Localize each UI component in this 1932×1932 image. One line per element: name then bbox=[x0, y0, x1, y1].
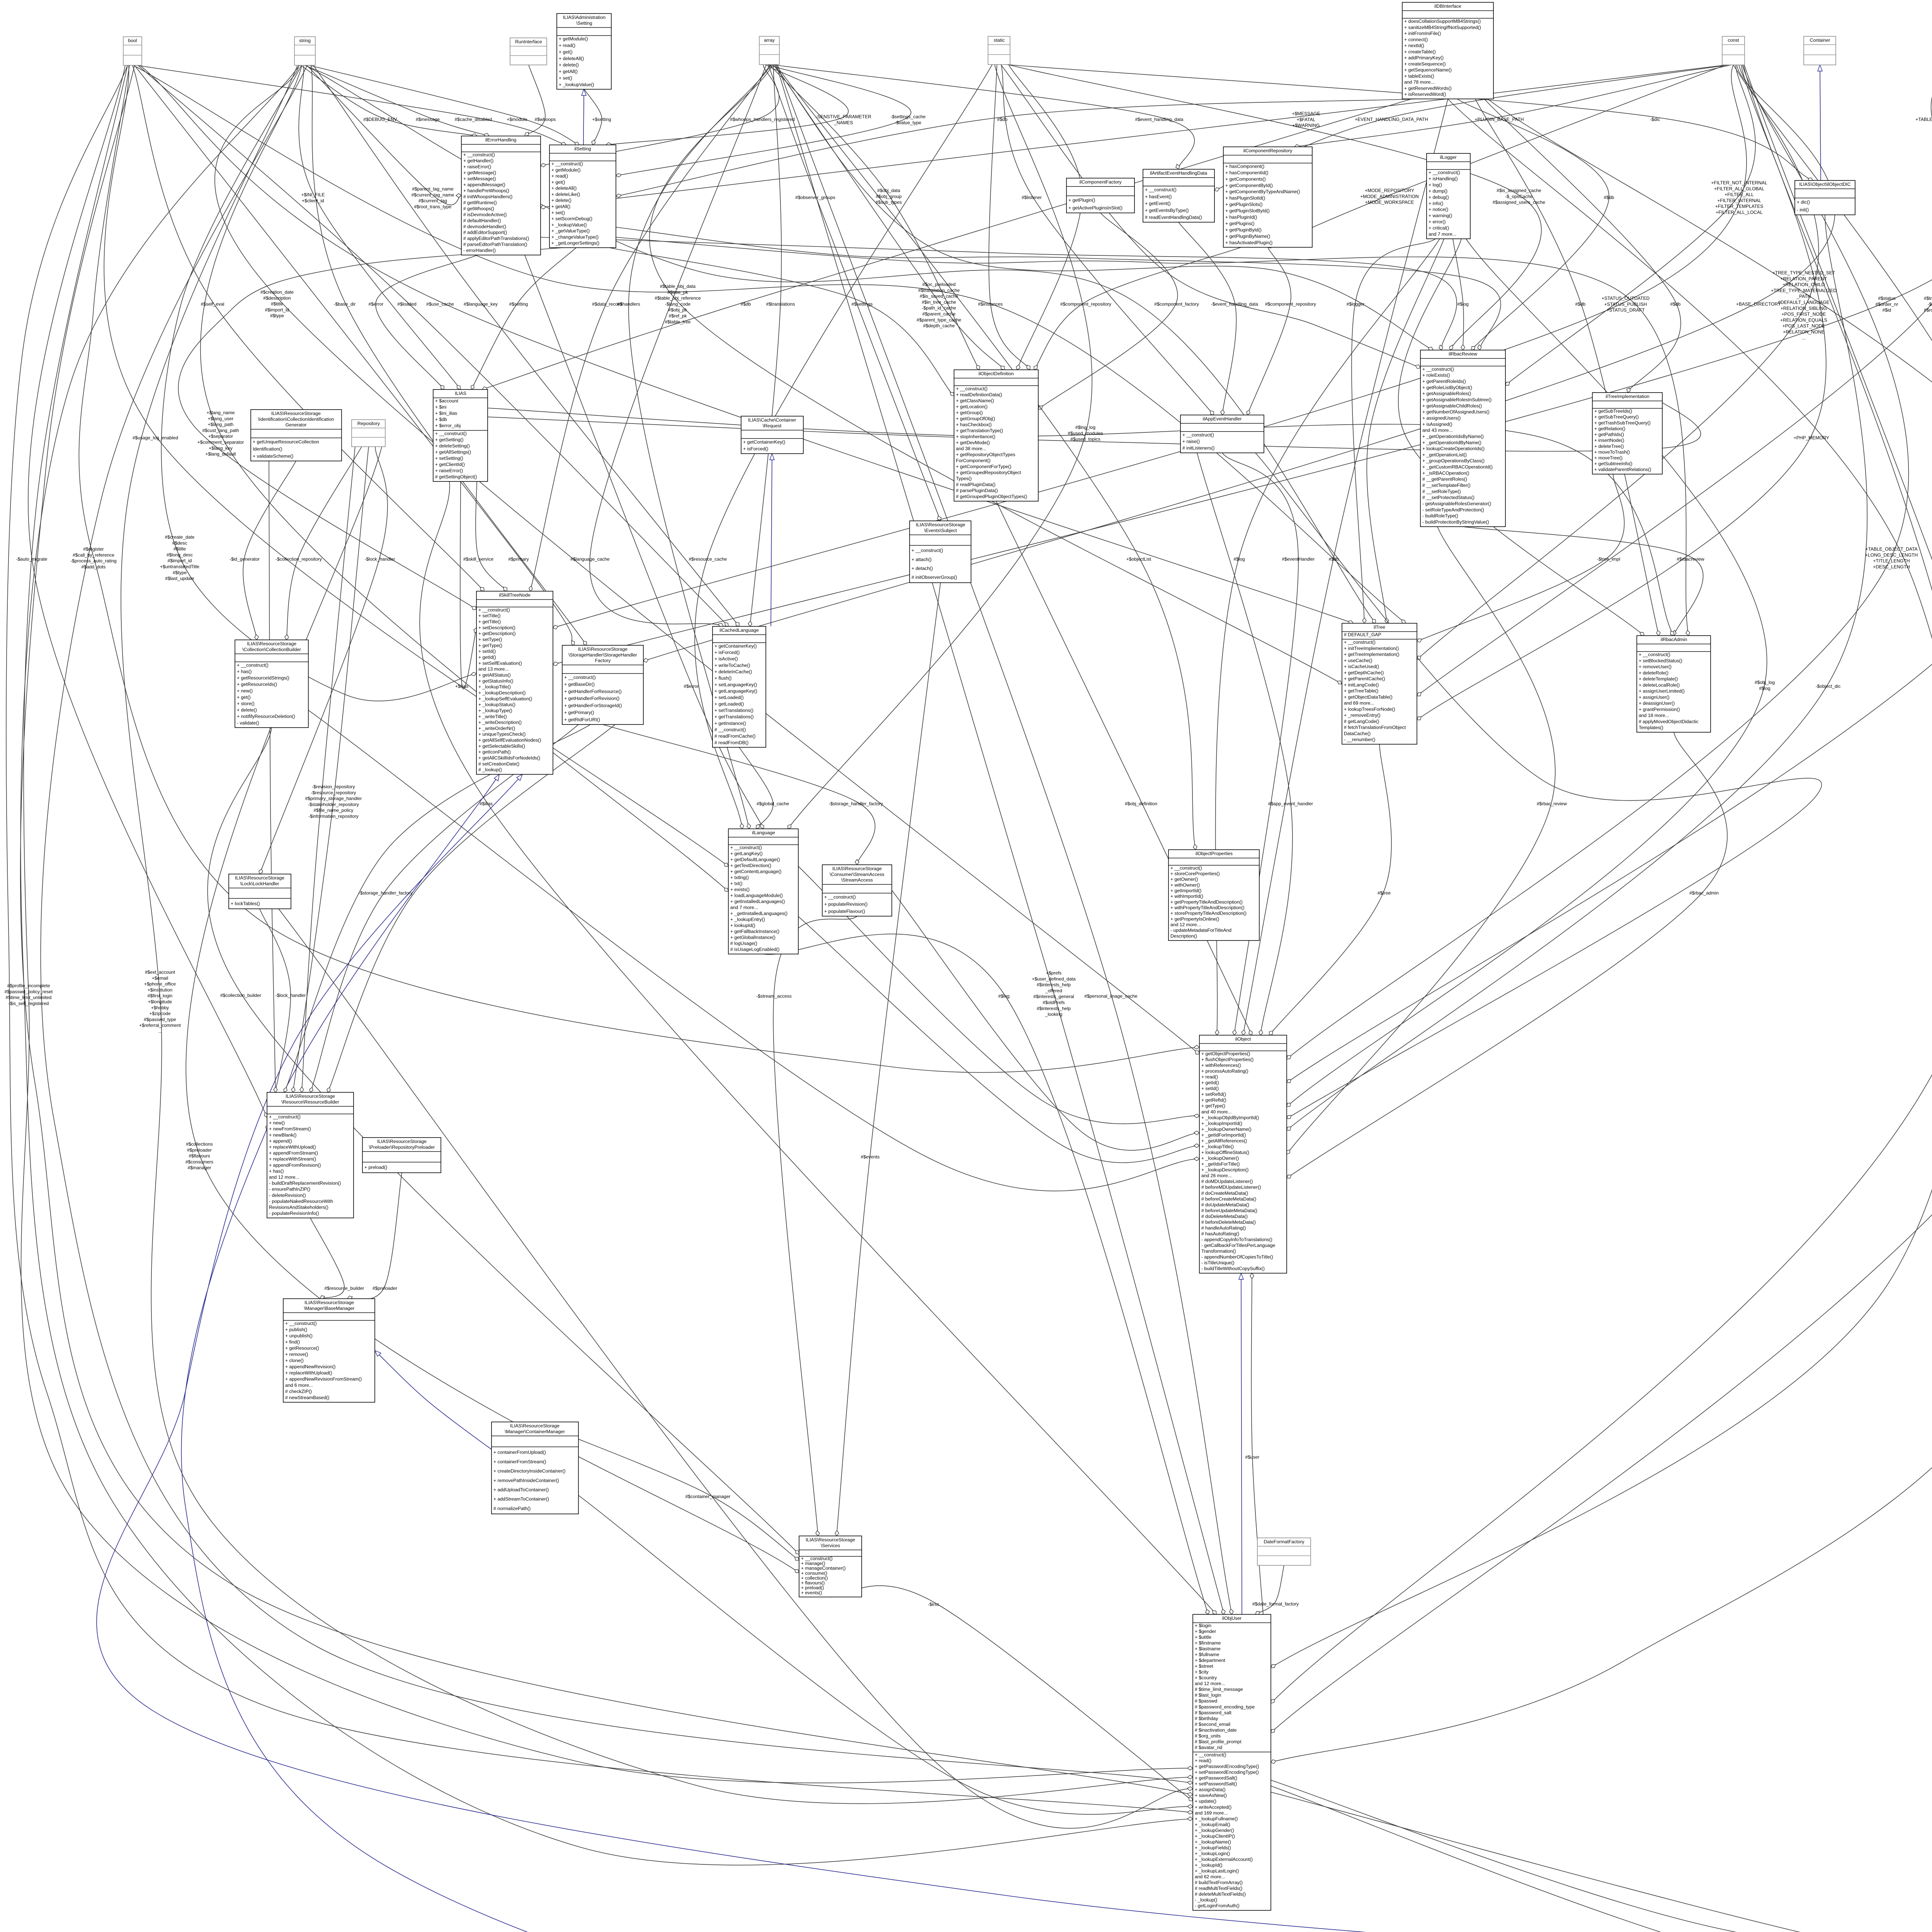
svg-text:-$gap: -$gap bbox=[1928, 301, 1932, 307]
svg-text:+ moveToTrash(): + moveToTrash() bbox=[1594, 449, 1630, 455]
svg-text:+ isReservedWord(): + isReservedWord() bbox=[1404, 92, 1446, 97]
svg-text:# deleteMultiTextFields(): # deleteMultiTextFields() bbox=[1195, 1891, 1246, 1897]
svg-text:#$parent_tag_name: #$parent_tag_name bbox=[412, 186, 454, 192]
svg-text:+ readDefinitionData(): + readDefinitionData() bbox=[956, 392, 1002, 397]
svg-text:+ _lookupImportId(): + _lookupImportId() bbox=[1201, 1121, 1242, 1126]
svg-text:+ $gender: + $gender bbox=[1195, 1629, 1216, 1634]
svg-text:+$module: +$module bbox=[507, 117, 527, 122]
svg-text:+ isActive(): + isActive() bbox=[714, 656, 738, 662]
svg-text:+ read(): + read() bbox=[559, 43, 575, 48]
svg-text:# $passwd: # $passwd bbox=[1195, 1698, 1217, 1704]
svg-text:+ raiseError(): + raiseError() bbox=[463, 164, 491, 170]
svg-text:+$setting: +$setting bbox=[592, 117, 611, 122]
svg-text:+ read(): + read() bbox=[1201, 1074, 1218, 1080]
svg-text:+$FATAL: +$FATAL bbox=[1297, 117, 1316, 122]
svg-text:+ getPlugin(): + getPlugin() bbox=[1068, 197, 1095, 203]
svg-text:+ getAssignableChildRoles(): + getAssignableChildRoles() bbox=[1422, 403, 1482, 408]
svg-text:#$in_tree_cache: #$in_tree_cache bbox=[922, 299, 956, 305]
svg-text:ILIAS\ResourceStorage: ILIAS\ResourceStorage bbox=[304, 1300, 354, 1305]
edge bbox=[1216, 239, 1440, 1035]
svg-text:+ setRefId(): + setRefId() bbox=[1201, 1092, 1226, 1097]
svg-text:+ containerFromUpload(): + containerFromUpload() bbox=[493, 1450, 546, 1455]
svg-text:+ appendFromStream(): + appendFromStream() bbox=[269, 1150, 318, 1156]
edge bbox=[609, 248, 954, 396]
svg-text:+$email: +$email bbox=[152, 975, 168, 981]
svg-text:+ replaceWithUpload(): + replaceWithUpload() bbox=[285, 1370, 332, 1376]
svg-text:# doCreateMetaData(): # doCreateMetaData() bbox=[1201, 1190, 1248, 1196]
svg-text:# __setTemplateFilter(): # __setTemplateFilter() bbox=[1422, 483, 1471, 488]
svg-text:#$rbac_admin: #$rbac_admin bbox=[1689, 890, 1719, 896]
svg-text:# $avatar_rid: # $avatar_rid bbox=[1195, 1745, 1222, 1750]
svg-text:+ getComponentByTypeAndName(): + getComponentByTypeAndName() bbox=[1225, 189, 1300, 194]
svg-text:#$log: #$log bbox=[1233, 556, 1245, 562]
svg-text:+ assignedUsers(): + assignedUsers() bbox=[1422, 415, 1461, 421]
svg-text:Repository: Repository bbox=[357, 421, 380, 426]
svg-text:+$untranslatedTitle: +$untranslatedTitle bbox=[160, 564, 199, 570]
edge bbox=[134, 65, 574, 645]
svg-text:#$collections: #$collections bbox=[186, 1141, 213, 1147]
edge bbox=[541, 65, 779, 166]
svg-text:+ hasActivatedPlugin(): + hasActivatedPlugin() bbox=[1225, 240, 1272, 245]
edge bbox=[140, 65, 1353, 623]
svg-text:+ initTreeImplementation(): + initTreeImplementation() bbox=[1344, 646, 1399, 651]
svg-text:+ error(): + error() bbox=[1429, 219, 1446, 224]
svg-text:+ getTranslationType(): + getTranslationType() bbox=[956, 428, 1003, 433]
svg-text:+ initFromIniFile(): + initFromIniFile() bbox=[1404, 31, 1441, 36]
edge bbox=[420, 481, 1216, 1614]
edge bbox=[460, 481, 476, 689]
svg-text:+ storeCoreProperties(): + storeCoreProperties() bbox=[1170, 871, 1220, 876]
svg-text:+ __construct(): + __construct() bbox=[1429, 170, 1460, 175]
edge bbox=[313, 65, 739, 626]
svg-text:-$storage_handler_factory: -$storage_handler_factory bbox=[359, 890, 413, 896]
svg-text:+ getPasswordEncodingType(): + getPasswordEncodingType() bbox=[1195, 1764, 1259, 1769]
svg-text:- buildTitleWithoutCopySuffix(: - buildTitleWithoutCopySuffix() bbox=[1201, 1266, 1265, 1271]
svg-text:+FILTER_ALL_LOCAL: +FILTER_ALL_LOCAL bbox=[1716, 210, 1763, 215]
svg-text:+ $fullname: + $fullname bbox=[1195, 1652, 1219, 1657]
edge bbox=[606, 65, 848, 145]
svg-text:+FILTER_TEMPLATES: +FILTER_TEMPLATES bbox=[1715, 204, 1764, 209]
class AdminSetting bbox=[557, 14, 611, 89]
svg-text:#$observer_groups: #$observer_groups bbox=[795, 195, 835, 200]
svg-text:\Events\Subject: \Events\Subject bbox=[924, 528, 957, 533]
svg-text:+ insertNode(): + insertNode() bbox=[1594, 438, 1624, 443]
svg-text:+ publish(): + publish() bbox=[285, 1327, 307, 1332]
svg-text:-$event_handling_data: -$event_handling_data bbox=[1211, 301, 1258, 307]
svg-text:#$translation_cache: #$translation_cache bbox=[918, 287, 960, 293]
svg-text:#$profile_incomplete: #$profile_incomplete bbox=[7, 983, 50, 988]
edge bbox=[133, 65, 484, 591]
svg-text:+ _lookupType(): + _lookupType() bbox=[478, 708, 512, 713]
svg-text:+ getSubtreeInfo(): + getSubtreeInfo() bbox=[1594, 461, 1633, 466]
svg-text:#$title: #$title bbox=[173, 546, 186, 552]
svg-text:# getWhoops(): # getWhoops() bbox=[463, 206, 494, 211]
svg-text:+ processAutoRating(): + processAutoRating() bbox=[1201, 1068, 1248, 1074]
svg-text:-$lock_handler: -$lock_handler bbox=[276, 993, 306, 998]
svg-text:+RELATION_SIBLING: +RELATION_SIBLING bbox=[1781, 306, 1827, 311]
svg-text:+ getAll(): + getAll() bbox=[551, 204, 570, 209]
svg-text:+ read(): + read() bbox=[551, 173, 568, 179]
svg-text:# readPluginData(): # readPluginData() bbox=[956, 482, 995, 487]
class RunInterface bbox=[510, 38, 547, 65]
class ilCachedLanguage bbox=[713, 626, 766, 747]
svg-text:+ _lookupName(): + _lookupName() bbox=[1195, 1839, 1231, 1845]
svg-text:+ _changeValueType(): + _changeValueType() bbox=[551, 234, 599, 240]
svg-text:#$obj_definition: #$obj_definition bbox=[1125, 801, 1157, 806]
edge bbox=[553, 65, 1932, 665]
svg-text:ilSetting: ilSetting bbox=[574, 146, 591, 151]
svg-text:_offered: _offered bbox=[1045, 988, 1062, 993]
svg-text:+ getLoaded(): + getLoaded() bbox=[714, 701, 744, 707]
svg-text:+ $ini: + $ini bbox=[435, 405, 446, 410]
svg-text:# getGroupedPluginObjectTypes(: # getGroupedPluginObjectTypes() bbox=[956, 494, 1027, 499]
svg-text:-$value_type: -$value_type bbox=[895, 120, 922, 125]
edge bbox=[629, 65, 771, 829]
svg-text:ForComponent(): ForComponent() bbox=[956, 458, 990, 463]
svg-text:+ delete(): + delete() bbox=[559, 62, 579, 68]
edge bbox=[269, 461, 276, 1092]
svg-text:+ getPluginById(): + getPluginById() bbox=[1225, 227, 1262, 233]
svg-text:+ getPluginSlotById(): + getPluginSlotById() bbox=[1225, 208, 1270, 214]
svg-text:+ getPluginByName(): + getPluginByName() bbox=[1225, 233, 1270, 239]
svg-text:+ removePathInsideContainer(): + removePathInsideContainer() bbox=[493, 1478, 559, 1483]
svg-text:+ roleExists(): + roleExists() bbox=[1422, 372, 1450, 378]
edge bbox=[215, 65, 1199, 1054]
svg-text:+ exists(): + exists() bbox=[730, 887, 750, 892]
edge bbox=[1417, 474, 1624, 641]
svg-text:#$long_desc: #$long_desc bbox=[167, 552, 193, 558]
svg-text:+ __construct(): + __construct() bbox=[1344, 639, 1376, 645]
edge bbox=[1251, 1273, 1263, 1614]
svg-text:#$used_modules: #$used_modules bbox=[1068, 430, 1103, 436]
svg-text:+$user_defined_data: +$user_defined_data bbox=[1032, 976, 1075, 981]
svg-text:-$settings_cache: -$settings_cache bbox=[891, 114, 926, 119]
svg-text:+ _lookupOwnerName(): + _lookupOwnerName() bbox=[1201, 1126, 1252, 1132]
svg-text:+ $lastname: + $lastname bbox=[1195, 1646, 1221, 1651]
edge bbox=[161, 65, 476, 701]
svg-text:+ saveAsNew(): + saveAsNew() bbox=[1195, 1793, 1227, 1798]
svg-text:-$storage_handler_factory: -$storage_handler_factory bbox=[829, 801, 883, 806]
svg-text:+ getContainerKey(): + getContainerKey() bbox=[743, 439, 785, 445]
edge bbox=[376, 255, 477, 389]
svg-text:-$id_generator: -$id_generator bbox=[230, 556, 260, 562]
svg-text:Types(): Types() bbox=[956, 476, 972, 481]
svg-text:+ __construct(): + __construct() bbox=[435, 431, 467, 436]
class DateFormatFactory bbox=[1257, 1538, 1311, 1565]
edge bbox=[201, 65, 728, 891]
svg-text:+ _lookupSelfEvaluation(): + _lookupSelfEvaluation() bbox=[478, 696, 532, 701]
svg-text:+ get(): + get() bbox=[551, 180, 565, 185]
svg-text:and 40 more...: and 40 more... bbox=[1201, 1109, 1232, 1114]
edge bbox=[186, 447, 799, 1573]
svg-text:+ validateParentRelations(): + validateParentRelations() bbox=[1594, 467, 1651, 472]
svg-text:+ deleteLike(): + deleteLike() bbox=[551, 192, 580, 197]
edge bbox=[471, 248, 576, 389]
svg-text:+ deleteTemplate(): + deleteTemplate() bbox=[1639, 676, 1678, 682]
edge bbox=[541, 65, 1727, 207]
svg-text:\Identification\CollectionIden: \Identification\CollectionIdentification bbox=[258, 417, 334, 422]
svg-text:+ _lookupLogin(): + _lookupLogin() bbox=[1195, 1851, 1230, 1856]
edge bbox=[104, 65, 728, 866]
svg-text:+ withImportId(): + withImportId() bbox=[1170, 894, 1203, 899]
svg-text:+ getBaseDir(): + getBaseDir() bbox=[564, 682, 595, 687]
edge bbox=[286, 447, 362, 640]
svg-text:#$error: #$error bbox=[369, 301, 384, 307]
svg-text:- appendCopyInfoToTranslations: - appendCopyInfoToTranslations() bbox=[1201, 1237, 1272, 1242]
svg-text:+ _lookupStatus(): + _lookupStatus() bbox=[478, 702, 515, 707]
svg-text:ILIAS\ResourceStorage: ILIAS\ResourceStorage bbox=[271, 411, 321, 416]
edge bbox=[590, 65, 766, 626]
svg-text:#$date_format_factory: #$date_format_factory bbox=[1252, 1601, 1299, 1607]
svg-text:# beforeUpdateMetaData(): # beforeUpdateMetaData() bbox=[1201, 1208, 1257, 1213]
svg-text:# fetchTranslationFromObject: # fetchTranslationFromObject bbox=[1344, 725, 1406, 730]
svg-text:- buildDraftReplacementRevisio: - buildDraftReplacementRevision() bbox=[269, 1180, 341, 1186]
edge bbox=[616, 237, 1689, 636]
edge bbox=[1241, 1273, 1242, 1614]
svg-text:#$type: #$type bbox=[173, 570, 187, 575]
svg-text:\Setting: \Setting bbox=[576, 20, 592, 26]
edge bbox=[798, 917, 1199, 1163]
edge bbox=[293, 447, 369, 1092]
svg-text:+FILTER_INTERNAL: +FILTER_INTERNAL bbox=[1717, 198, 1761, 203]
svg-text:#$parent_cache: #$parent_cache bbox=[922, 311, 956, 317]
svg-text:+ getMessage(): + getMessage() bbox=[463, 170, 496, 175]
svg-text:+ getIconPath(): + getIconPath() bbox=[478, 749, 511, 755]
edge bbox=[328, 724, 615, 1092]
svg-text:- getAssignableRolesGenerator(: - getAssignableRolesGenerator() bbox=[1422, 501, 1491, 507]
svg-text:+ has(): + has() bbox=[237, 669, 252, 674]
svg-text:#$parent_type_cache: #$parent_type_cache bbox=[917, 317, 961, 323]
edge bbox=[1271, 99, 1932, 1668]
edge bbox=[1243, 99, 1448, 1035]
svg-text:+ assignUserLimited(): + assignUserLimited() bbox=[1639, 689, 1685, 694]
svg-text:+ setId(): + setId() bbox=[478, 649, 496, 654]
edge bbox=[525, 65, 545, 136]
svg-text:#$translations: #$translations bbox=[766, 301, 795, 307]
svg-text:# $last_login: # $last_login bbox=[1195, 1692, 1221, 1698]
edge bbox=[375, 1350, 492, 1449]
svg-text:+ getSubTreeQuery(): + getSubTreeQuery() bbox=[1594, 414, 1639, 420]
svg-text:# __setProtectedStatus(): # __setProtectedStatus() bbox=[1422, 495, 1475, 500]
edge bbox=[776, 65, 1196, 850]
svg-text:#$whoops_handlers_registered: #$whoops_handlers_registered bbox=[730, 117, 794, 122]
svg-text:+ nextId(): + nextId() bbox=[1404, 43, 1424, 48]
svg-text:-$tree_impl: -$tree_impl bbox=[1597, 556, 1620, 562]
edge bbox=[311, 65, 587, 645]
class RepositoryPreloader bbox=[362, 1138, 441, 1173]
svg-text:+ $error_obj: + $error_obj bbox=[435, 423, 461, 429]
svg-text:- getCallbackForTitlesPerLangu: - getCallbackForTitlesPerLanguage bbox=[1201, 1243, 1275, 1248]
svg-text:#$log: #$log bbox=[1457, 301, 1468, 307]
svg-text:+ getContainerKey(): + getContainerKey() bbox=[714, 643, 757, 649]
svg-text:+ getId(): + getId() bbox=[478, 655, 496, 660]
svg-text:+ hasComponentId(): + hasComponentId() bbox=[1225, 170, 1268, 175]
svg-text:+ __construct(): + __construct() bbox=[564, 675, 596, 680]
svg-text:+ getResourceIds(): + getResourceIds() bbox=[237, 682, 277, 687]
svg-text:\Preloader\RepositoryPreloader: \Preloader\RepositoryPreloader bbox=[369, 1145, 435, 1150]
svg-text:+$lang_default: +$lang_default bbox=[205, 451, 236, 457]
svg-text:#$is_saved_cache: #$is_saved_cache bbox=[920, 294, 958, 299]
svg-text:+$longitude: +$longitude bbox=[148, 999, 172, 1005]
svg-text:- validate(): - validate() bbox=[237, 720, 259, 726]
edge bbox=[1294, 65, 1731, 147]
svg-text:+ getTrashSubTreeQuery(): + getTrashSubTreeQuery() bbox=[1594, 420, 1651, 425]
svg-text:and 13 more...: and 13 more... bbox=[478, 667, 509, 672]
svg-text:-$auto_migrate: -$auto_migrate bbox=[16, 556, 48, 562]
svg-text:+ txt(): + txt() bbox=[730, 881, 743, 886]
svg-text:# readMultiTextFields(): # readMultiTextFields() bbox=[1195, 1886, 1242, 1891]
svg-text:ILIAS\ResourceStorage: ILIAS\ResourceStorage bbox=[377, 1139, 427, 1144]
svg-text:+ remove(): + remove() bbox=[285, 1352, 308, 1357]
svg-text:+ _lookupLastLogin(): + _lookupLastLogin() bbox=[1195, 1868, 1239, 1874]
edge bbox=[616, 227, 1501, 350]
svg-text:+ getFallbackInstance(): + getFallbackInstance() bbox=[730, 929, 779, 934]
svg-text:+ setDescription(): + setDescription() bbox=[478, 625, 515, 630]
svg-text:ilObjectDefinition: ilObjectDefinition bbox=[978, 371, 1014, 376]
svg-text:+ initLangCode(): + initLangCode() bbox=[1344, 682, 1379, 687]
class ContainerManager bbox=[492, 1422, 578, 1514]
edge bbox=[1287, 239, 1767, 1107]
svg-text:- updateMetadataForTitleAnd: - updateMetadataForTitleAnd bbox=[1170, 928, 1231, 933]
class array bbox=[759, 36, 779, 65]
svg-text:+MODE_REPOSITORY: +MODE_REPOSITORY bbox=[1365, 188, 1414, 193]
svg-text:+ handlePreWhoops(): + handlePreWhoops() bbox=[463, 188, 509, 194]
class string bbox=[294, 37, 315, 65]
svg-text:#$id: #$id bbox=[1883, 308, 1891, 313]
class CollIdGen bbox=[251, 410, 342, 461]
svg-text:+ new(): + new() bbox=[269, 1120, 285, 1126]
svg-text:+ getEventsByType(): + getEventsByType() bbox=[1145, 208, 1189, 213]
svg-text:#$eventHandler: #$eventHandler bbox=[1282, 556, 1315, 562]
class ilObjectDefinition bbox=[954, 370, 1038, 501]
svg-text:Identification(): Identification() bbox=[253, 446, 282, 452]
svg-text:#$passwd_policy_reset: #$passwd_policy_reset bbox=[5, 989, 53, 994]
edge bbox=[1475, 99, 1659, 636]
svg-text:ilObject: ilObject bbox=[1235, 1036, 1251, 1042]
svg-text:- ensurePathInZIP(): - ensurePathInZIP() bbox=[269, 1187, 310, 1192]
edge bbox=[1398, 239, 1644, 636]
svg-text:and 7 more...: and 7 more... bbox=[1429, 231, 1456, 237]
svg-text:+ _lookupId(): + _lookupId() bbox=[1195, 1862, 1222, 1868]
svg-text:RunInterface: RunInterface bbox=[515, 39, 542, 44]
svg-text:+ append(): + append() bbox=[269, 1138, 292, 1144]
svg-text:Description(): Description() bbox=[1170, 933, 1197, 939]
svg-text:+ grantPermission(): + grantPermission() bbox=[1639, 707, 1680, 712]
svg-text:+ log(): + log() bbox=[1429, 182, 1442, 187]
svg-text:ILIAS\ResourceStorage: ILIAS\ResourceStorage bbox=[578, 646, 628, 652]
svg-text:+ getDevMode(): + getDevMode() bbox=[956, 440, 990, 445]
edge bbox=[892, 890, 1199, 1150]
edge bbox=[1931, 65, 1932, 265]
edge bbox=[1038, 213, 1178, 409]
svg-text:\StorageHandler\StorageHandler: \StorageHandler\StorageHandler bbox=[568, 652, 637, 658]
edge bbox=[750, 65, 781, 626]
edge bbox=[1417, 65, 1826, 720]
svg-text:-$revision_repository: -$revision_repository bbox=[312, 784, 355, 789]
svg-text:#$whoops: #$whoops bbox=[535, 117, 556, 122]
svg-text:+ getRelation(): + getRelation() bbox=[1594, 426, 1625, 431]
svg-text:+ getSelectableSkills(): + getSelectableSkills() bbox=[478, 743, 525, 749]
edge bbox=[1269, 744, 1391, 1035]
edge bbox=[989, 65, 1030, 370]
svg-text:+ raise(): + raise() bbox=[1182, 439, 1200, 444]
svg-text:# $password_encoding_type: # $password_encoding_type bbox=[1195, 1704, 1255, 1709]
edge bbox=[1463, 527, 1703, 636]
svg-text:+$objectList: +$objectList bbox=[1126, 556, 1151, 562]
svg-text:\Request: \Request bbox=[763, 423, 782, 429]
svg-text:+ connect(): + connect() bbox=[1404, 37, 1428, 42]
svg-text:+ getOwner(): + getOwner() bbox=[1170, 877, 1198, 882]
svg-text:- _lookup(): - _lookup() bbox=[1195, 1897, 1217, 1903]
svg-text:+$client_id: +$client_id bbox=[302, 198, 324, 203]
svg-text:+ getId(): + getId() bbox=[1201, 1080, 1219, 1085]
svg-text:+ getPlugins(): + getPlugins() bbox=[1225, 221, 1255, 226]
svg-text:+ setTranslations(): + setTranslations() bbox=[714, 708, 753, 713]
edge bbox=[1001, 65, 1420, 368]
svg-text:+ $utitle: + $utitle bbox=[1195, 1634, 1211, 1640]
svg-text:+ getPasswordSalt(): + getPasswordSalt() bbox=[1195, 1776, 1237, 1781]
edge bbox=[1001, 65, 1214, 415]
svg-text:+ replaceWithStream(): + replaceWithStream() bbox=[269, 1156, 316, 1162]
svg-text:+ getClientId(): + getClientId() bbox=[435, 462, 465, 467]
svg-text:\Manager\ContainerManager: \Manager\ContainerManager bbox=[505, 1429, 565, 1434]
svg-text:ILIAS\ResourceStorage: ILIAS\ResourceStorage bbox=[916, 522, 965, 527]
svg-text:#$error: #$error bbox=[684, 684, 699, 689]
svg-text:+ getLocation(): + getLocation() bbox=[956, 404, 988, 409]
svg-text:#$passwd_type: #$passwd_type bbox=[144, 1017, 176, 1022]
svg-text:#$listener: #$listener bbox=[1022, 195, 1042, 200]
svg-text:# beforeCreateMetaData(): # beforeCreateMetaData() bbox=[1201, 1196, 1256, 1202]
svg-text:+ _writeTitle(): + _writeTitle() bbox=[478, 714, 507, 719]
svg-text:+ getAllSelfEvaluationNodes(): + getAllSelfEvaluationNodes() bbox=[478, 738, 541, 743]
svg-text:#$sub_types: #$sub_types bbox=[876, 200, 902, 205]
edge bbox=[695, 65, 992, 829]
svg-text:+ attach(): + attach() bbox=[912, 557, 932, 562]
svg-text:# DEFAULT_GAP: # DEFAULT_GAP bbox=[1344, 632, 1381, 637]
svg-text:+ _lookupObjIdByImportId(): + _lookupObjIdByImportId() bbox=[1201, 1115, 1259, 1120]
svg-text:ilTreeImplementation: ilTreeImplementation bbox=[1605, 394, 1649, 399]
svg-text:+ deleteSetting(): + deleteSetting() bbox=[435, 443, 470, 449]
svg-text:+$phone_office: +$phone_office bbox=[144, 981, 176, 987]
svg-text:-$_opsCache: -$_opsCache bbox=[1505, 194, 1533, 199]
svg-text:ILIAS\Object\ilObjectDIC: ILIAS\Object\ilObjectDIC bbox=[1799, 182, 1851, 187]
edge bbox=[777, 65, 1232, 1614]
svg-text:#$db: #$db bbox=[741, 301, 751, 307]
svg-text:- buildRoleType(): - buildRoleType() bbox=[1422, 513, 1458, 519]
edge bbox=[1352, 239, 1435, 623]
svg-text:+ lookupOfflineStatus(): + lookupOfflineStatus() bbox=[1201, 1150, 1249, 1155]
svg-text:+ _lookupEmail(): + _lookupEmail() bbox=[1195, 1822, 1230, 1827]
svg-text:ilLogger: ilLogger bbox=[1440, 155, 1456, 160]
edge bbox=[310, 724, 578, 1092]
svg-text:+ dump(): + dump() bbox=[1429, 188, 1447, 194]
class ilErrorHandling bbox=[461, 136, 541, 255]
svg-text:+RELATION_CHILD: +RELATION_CHILD bbox=[1783, 282, 1825, 287]
svg-text:+ setId(): + setId() bbox=[1201, 1086, 1219, 1091]
svg-text:ILIAS\Cache\Container: ILIAS\Cache\Container bbox=[748, 417, 796, 423]
svg-text:+ $ini_ilias: + $ini_ilias bbox=[435, 411, 457, 416]
svg-text:+ get(): + get() bbox=[559, 49, 573, 55]
svg-text:+ new(): + new() bbox=[237, 688, 253, 694]
svg-text:# isDevmodeActive(): # isDevmodeActive() bbox=[463, 212, 507, 217]
svg-text:- populateNakedResourceWith: - populateNakedResourceWith bbox=[269, 1199, 333, 1204]
svg-text:#$resource_cache: #$resource_cache bbox=[689, 556, 727, 562]
svg-text:#$settings: #$settings bbox=[852, 301, 873, 307]
svg-text:-SENSTIVE_PARAMETER: -SENSTIVE_PARAMETER bbox=[816, 114, 871, 119]
svg-text:+ getTreeImplementation(): + getTreeImplementation() bbox=[1344, 652, 1400, 657]
edge bbox=[1417, 65, 1932, 696]
svg-text:# checkZIP(): # checkZIP() bbox=[285, 1389, 312, 1394]
